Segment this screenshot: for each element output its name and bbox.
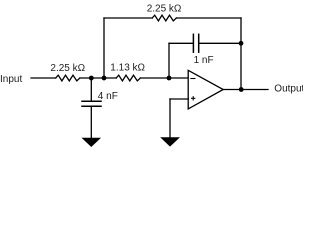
node junction on main wire at C1 branch xyxy=(167,76,172,81)
op-amp minus sign xyxy=(191,78,195,80)
resistor R1 zigzag xyxy=(56,75,80,81)
wire feedback top right segment xyxy=(176,17,241,19)
wire feedback left vertical xyxy=(103,18,105,78)
svg-text:2.25 kΩ: 2.25 kΩ xyxy=(147,3,182,14)
node junction C1 to feedback vertical xyxy=(239,41,244,46)
wire output xyxy=(223,89,268,91)
resistor R3 zigzag xyxy=(152,15,176,21)
svg-text:1.13 kΩ: 1.13 kΩ xyxy=(110,63,145,74)
capacitor C2 plates xyxy=(82,101,101,106)
wire plus input vertical to ground xyxy=(169,99,171,137)
resistor R2 zigzag xyxy=(116,75,140,81)
wire input segment xyxy=(31,77,56,79)
svg-text:2.25 kΩ: 2.25 kΩ xyxy=(50,63,85,74)
wire feedback top left segment xyxy=(104,17,152,19)
wire C1 right lead xyxy=(199,42,241,44)
wire C2 to ground xyxy=(90,106,92,138)
ground at op-amp plus input xyxy=(160,137,180,146)
wire R2 to op-amp xyxy=(140,77,188,79)
node junction on main wire at feedback branch xyxy=(102,76,107,81)
capacitor C1 plates xyxy=(193,34,198,52)
svg-text:1 nF: 1 nF xyxy=(194,55,214,66)
wire C1 branch vertical xyxy=(168,43,170,78)
wire R1 to R2 xyxy=(80,77,116,79)
op-amp plus sign xyxy=(192,97,195,100)
node junction on main wire at C2 branch xyxy=(89,76,94,81)
wire feedback right vertical xyxy=(240,18,242,90)
wire C1 left lead xyxy=(169,42,193,44)
svg-text:Input: Input xyxy=(0,74,22,85)
svg-text:4 nF: 4 nF xyxy=(98,91,118,102)
wire C2 branch vertical upper xyxy=(90,78,92,101)
ground below C2 xyxy=(82,138,102,147)
op-amp U1 triangle xyxy=(188,70,223,109)
wire plus input horizontal xyxy=(170,98,188,100)
node junction at op-amp output xyxy=(239,87,244,92)
svg-text:Output: Output xyxy=(274,84,303,95)
